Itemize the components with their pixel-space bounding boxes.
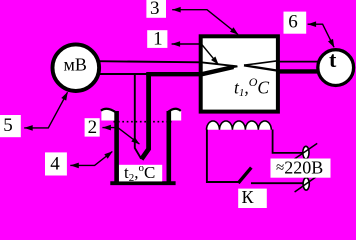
svg-text:К: К — [242, 187, 255, 207]
svg-text:≈220В: ≈220В — [276, 157, 323, 177]
svg-text:6: 6 — [288, 12, 298, 33]
svg-text:t: t — [329, 47, 337, 72]
svg-text:2: 2 — [88, 117, 98, 138]
svg-text:мВ: мВ — [64, 55, 87, 75]
svg-text:1: 1 — [153, 29, 163, 50]
svg-text:5: 5 — [3, 115, 13, 136]
svg-text:4: 4 — [50, 154, 60, 175]
svg-text:3: 3 — [150, 0, 160, 19]
